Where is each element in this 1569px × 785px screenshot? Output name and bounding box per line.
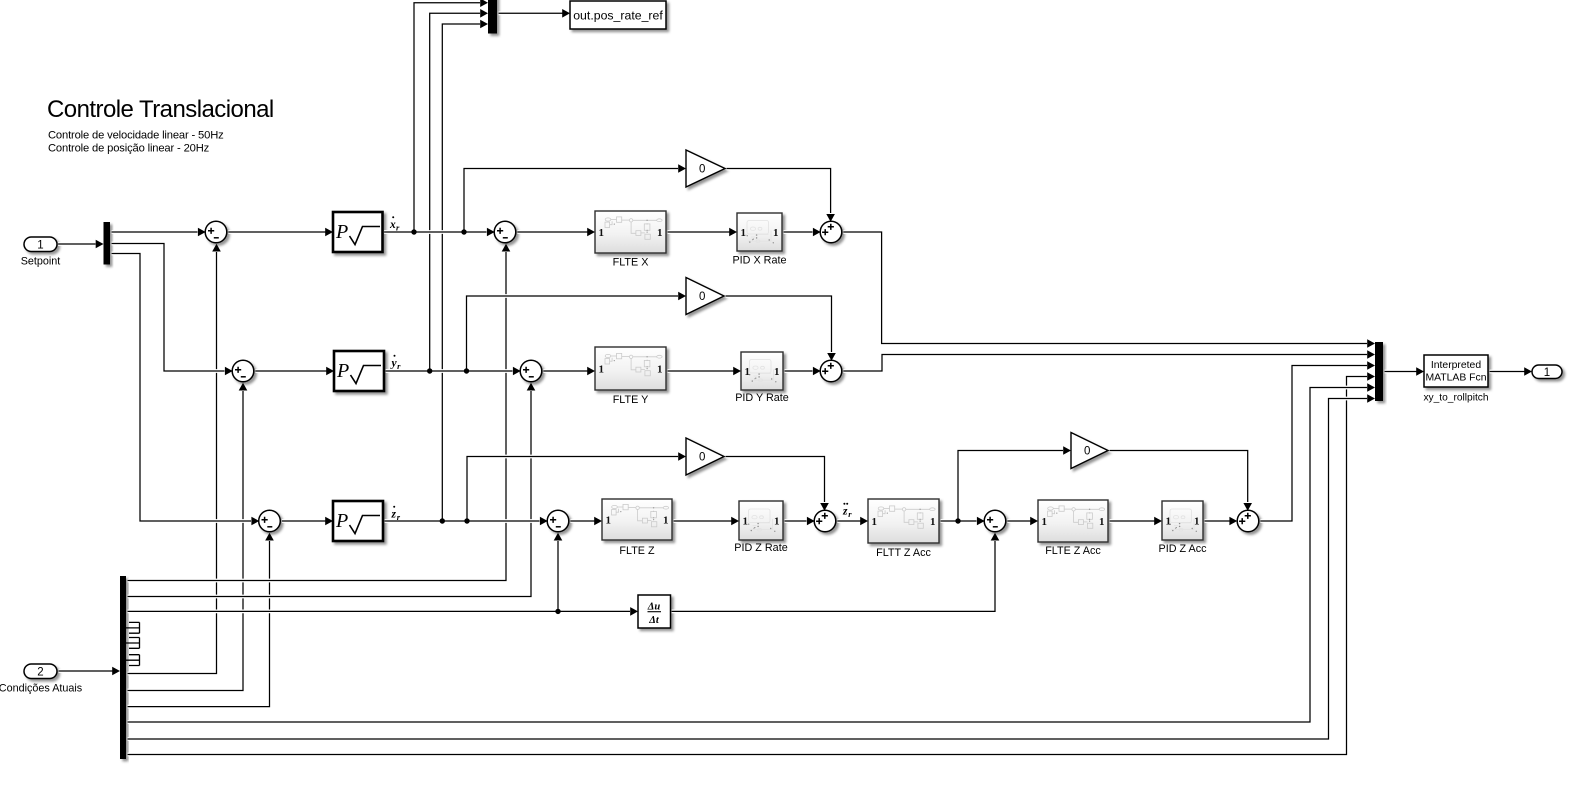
- svg-text:Controle Translacional: Controle Translacional: [47, 96, 274, 123]
- svg-text:x: x: [389, 219, 396, 231]
- svg-text:Δt: Δt: [648, 615, 660, 626]
- svg-text:1: 1: [741, 227, 747, 239]
- svg-text:PID X Rate: PID X Rate: [732, 255, 786, 267]
- svg-text:2: 2: [37, 666, 43, 678]
- svg-text:Interpreted: Interpreted: [1431, 360, 1481, 371]
- svg-text:1: 1: [872, 516, 878, 528]
- svg-text:1: 1: [774, 515, 780, 527]
- svg-text:1: 1: [1042, 516, 1048, 528]
- svg-text:FLTE Y: FLTE Y: [613, 394, 649, 406]
- svg-text:0: 0: [699, 452, 705, 464]
- svg-text:PID Z Acc: PID Z Acc: [1159, 543, 1208, 555]
- svg-text:1: 1: [773, 227, 779, 239]
- svg-text:PID Z Rate: PID Z Rate: [734, 542, 787, 554]
- svg-text:1: 1: [599, 227, 605, 239]
- svg-text:out.pos_rate_ref: out.pos_rate_ref: [573, 9, 663, 23]
- svg-text:1: 1: [37, 239, 43, 251]
- svg-text:xy_to_rollpitch: xy_to_rollpitch: [1423, 393, 1488, 404]
- svg-text:MATLAB Fcn: MATLAB Fcn: [1425, 373, 1486, 384]
- svg-text:1: 1: [599, 363, 605, 375]
- svg-text:P: P: [336, 360, 349, 382]
- svg-text:0: 0: [1084, 446, 1090, 458]
- svg-text:1: 1: [657, 363, 663, 375]
- svg-text:1: 1: [743, 515, 749, 527]
- svg-text:1: 1: [745, 366, 751, 378]
- svg-text:P: P: [335, 510, 348, 532]
- svg-text:P: P: [335, 221, 348, 243]
- svg-text:1: 1: [1166, 515, 1172, 527]
- svg-text:FLTE Z Acc: FLTE Z Acc: [1045, 545, 1101, 557]
- svg-text:1: 1: [1099, 516, 1105, 528]
- svg-text:PID Y Rate: PID Y Rate: [735, 392, 789, 404]
- svg-text:FLTT Z Acc: FLTT Z Acc: [876, 547, 931, 559]
- svg-text:Controle de posição linear - 2: Controle de posição linear - 20Hz: [48, 143, 210, 155]
- svg-text:0: 0: [699, 291, 705, 303]
- svg-text:z: z: [391, 509, 397, 521]
- svg-text:Controle de velocidade linear: Controle de velocidade linear - 50Hz: [48, 130, 224, 142]
- svg-text:1: 1: [930, 516, 936, 528]
- svg-text:Setpoint: Setpoint: [21, 256, 61, 268]
- svg-text:1: 1: [774, 366, 780, 378]
- svg-text:1: 1: [1544, 367, 1550, 379]
- svg-text:1: 1: [657, 227, 663, 239]
- svg-text:FLTE Z: FLTE Z: [619, 545, 655, 557]
- svg-text:FLTE X: FLTE X: [613, 257, 649, 269]
- svg-text:1: 1: [1194, 515, 1200, 527]
- svg-text:z: z: [842, 506, 848, 518]
- svg-text:Condições Atuais: Condições Atuais: [0, 683, 83, 695]
- svg-text:0: 0: [699, 164, 705, 176]
- svg-text:1: 1: [663, 514, 669, 526]
- svg-text:1: 1: [606, 514, 612, 526]
- svg-text:Δu: Δu: [647, 602, 661, 613]
